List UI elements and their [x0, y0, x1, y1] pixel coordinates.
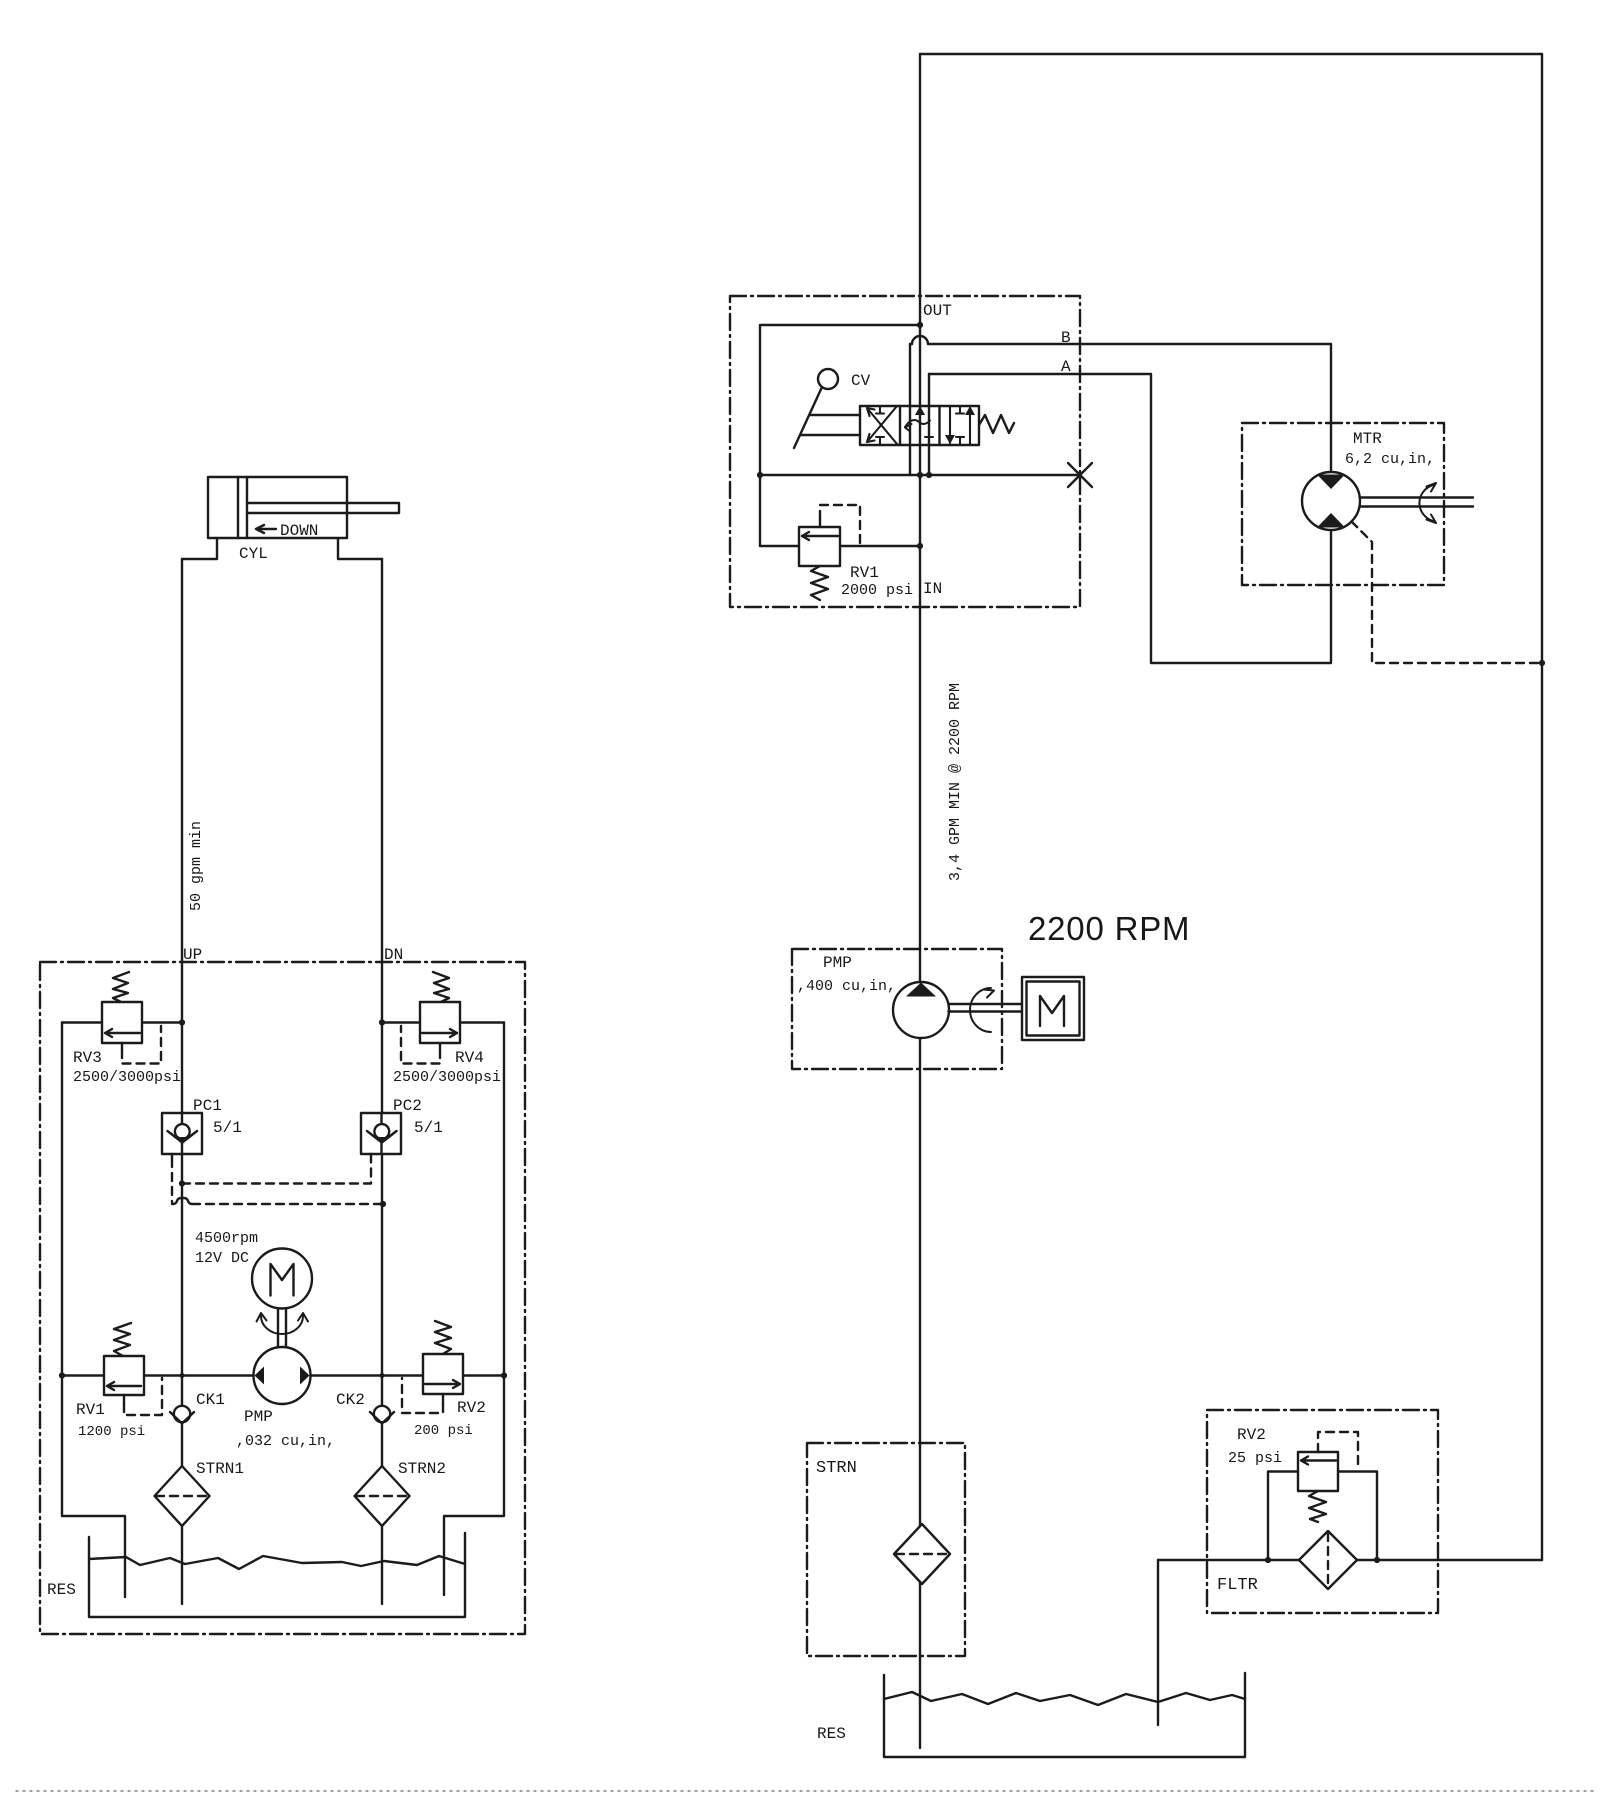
- svg-text:CK1: CK1: [196, 1391, 225, 1409]
- svg-text:5/1: 5/1: [414, 1119, 443, 1137]
- svg-text:50 gpm min: 50 gpm min: [188, 821, 205, 911]
- svg-text:STRN: STRN: [816, 1459, 857, 1478]
- svg-text:3,4 GPM MIN @ 2200 RPM: 3,4 GPM MIN @ 2200 RPM: [947, 683, 964, 881]
- wire RV3 port lines: [62, 1021, 182, 1023]
- enclosure dash-dot box (left power unit): [40, 962, 525, 1634]
- check valve PC2: [361, 1113, 401, 1158]
- enclosure dash-dot pump PMP box: [792, 949, 1002, 1069]
- wire cylinder right foot: [338, 538, 382, 559]
- wire cylinder left foot: [182, 538, 217, 559]
- svg-text:5/1: 5/1: [213, 1119, 242, 1137]
- svg-text:FLTR: FLTR: [1217, 1576, 1258, 1595]
- svg-text:CYL: CYL: [239, 545, 268, 563]
- svg-text:STRN2: STRN2: [398, 1460, 446, 1478]
- relief valve RV2 (200 psi): [402, 1321, 463, 1413]
- node filter inlet junction: [1265, 1557, 1271, 1563]
- svg-text:RV2: RV2: [1237, 1426, 1266, 1444]
- node left leg / mid line junction: [757, 472, 763, 478]
- page bottom dotted border: [16, 1790, 1597, 1792]
- svg-text:OUT: OUT: [923, 302, 952, 320]
- svg-text:2200 RPM: 2200 RPM: [1028, 910, 1190, 947]
- svg-text:PMP: PMP: [244, 1408, 273, 1426]
- check valve CK2: [370, 1406, 394, 1424]
- svg-text:PC1: PC1: [193, 1097, 222, 1115]
- node manifold / right riser junction: [501, 1372, 507, 1378]
- enclosure dash-dot valve assembly box: [730, 296, 1080, 607]
- node case drain / feed line junction: [1539, 660, 1545, 666]
- filter FLTR: [1299, 1531, 1357, 1589]
- directional control valve CV body: [860, 406, 979, 445]
- svg-text:A: A: [1061, 358, 1071, 376]
- wire filter line: [1158, 1559, 1542, 1561]
- svg-text:25 psi: 25 psi: [1228, 1450, 1282, 1467]
- svg-text:12V DC: 12V DC: [195, 1250, 249, 1267]
- svg-text:PC2: PC2: [393, 1097, 422, 1115]
- arrow DOWN direction: [256, 525, 276, 533]
- node RV1 outlet / left riser junction: [59, 1372, 65, 1378]
- valve centre envelope symbols: [905, 406, 933, 437]
- svg-text:1200 psi: 1200 psi: [78, 1424, 145, 1440]
- svg-text:DOWN: DOWN: [280, 522, 318, 540]
- svg-text:CK2: CK2: [336, 1391, 365, 1409]
- cylinder CYL body: [208, 477, 347, 538]
- relief valve RV3: [102, 972, 161, 1064]
- strainer STRN2: [355, 1466, 410, 1526]
- wire DN line: [381, 559, 383, 1604]
- strainer STRN: [894, 1524, 950, 1584]
- svg-text:RV1: RV1: [850, 564, 879, 582]
- hydraulic motor MTR: [1302, 472, 1360, 530]
- electric motor M (4500rpm): [252, 1249, 312, 1309]
- svg-text:2500/3000psi: 2500/3000psi: [393, 1069, 501, 1086]
- wire mid horizontal (to plugged port): [760, 474, 1080, 476]
- svg-text:DN: DN: [384, 946, 403, 964]
- pump shaft to motor: [949, 1004, 1023, 1012]
- strainer STRN1: [155, 1466, 210, 1526]
- svg-text:MTR: MTR: [1353, 430, 1382, 448]
- svg-text:RV2: RV2: [457, 1399, 486, 1417]
- valve return spring: [979, 415, 1014, 433]
- valve right envelope symbols: [945, 406, 975, 445]
- node manifold / UP line junction: [180, 1373, 185, 1378]
- wire pump manifold line: [62, 1374, 504, 1376]
- check valve CK1: [170, 1406, 194, 1424]
- pump rotation arrow: [970, 988, 994, 1032]
- motor rotation arrow: [1419, 483, 1436, 523]
- fluid surface (right): [884, 1692, 1245, 1705]
- svg-text:,032 cu,in,: ,032 cu,in,: [236, 1433, 335, 1450]
- pilot line PC2 sense (upper dashed): [182, 1158, 371, 1184]
- relief valve RV1 (1200 psi): [104, 1323, 162, 1415]
- reservoir RES tank (right): [884, 1673, 1245, 1757]
- svg-text:UP: UP: [183, 946, 202, 964]
- check valve PC1: [162, 1113, 202, 1159]
- node main line / RV1 line junction: [917, 543, 923, 549]
- fluid surface (left): [89, 1556, 465, 1569]
- reservoir RES tank (left): [89, 1533, 465, 1617]
- cylinder piston: [237, 477, 239, 538]
- relief valve RV1 (2000 psi): [799, 505, 860, 600]
- svg-text:STRN1: STRN1: [196, 1460, 244, 1478]
- node manifold / DN line junction: [380, 1373, 385, 1378]
- svg-text:RES: RES: [817, 1725, 846, 1743]
- hydraulic pump PMP (left, .032 cu in): [254, 1347, 311, 1404]
- plugged port X: [1068, 463, 1092, 487]
- node RV4 inlet / DN line junction: [379, 1019, 385, 1025]
- wire main OUT-IN line: [919, 54, 921, 1748]
- svg-text:B: B: [1061, 329, 1071, 347]
- motor shaft: [1360, 498, 1474, 507]
- svg-text:CV: CV: [851, 372, 871, 390]
- motor case drain (dashed): [1352, 522, 1543, 664]
- wire inner circuit left leg and top: [760, 325, 920, 546]
- svg-text:RV3: RV3: [73, 1049, 102, 1067]
- svg-text:IN: IN: [923, 580, 942, 598]
- wire top loop and right feed line: [920, 54, 1542, 1560]
- svg-text:,400 cu,in,: ,400 cu,in,: [797, 978, 896, 995]
- relief valve RV4: [401, 972, 460, 1064]
- node RV3 outlet / UP line junction: [179, 1019, 185, 1025]
- motor-pump shaft: [278, 1309, 286, 1348]
- node main line / mid line junction: [917, 472, 923, 478]
- relief valve RV2 (25 psi): [1268, 1432, 1377, 1560]
- wire B line with hop: [910, 343, 912, 345]
- electric motor M box: [1022, 977, 1084, 1040]
- pilot line PC1 sense (lower dashed with hop): [172, 1159, 383, 1204]
- wire RV4 port lines: [382, 1021, 504, 1023]
- svg-text:2000 psi: 2000 psi: [841, 582, 913, 599]
- valve left envelope crossed arrows: [867, 406, 897, 445]
- wire valve B riser: [909, 344, 911, 475]
- wire A line: [929, 374, 1331, 663]
- node PC2 pilot / UP line junction: [179, 1180, 185, 1186]
- cylinder rod: [247, 503, 399, 513]
- node A riser / mid line junction: [926, 472, 932, 478]
- wire left riser (RV1/RV3 tank leg): [62, 1023, 125, 1598]
- node OUT branch junction: [917, 322, 923, 328]
- wire RV1 line (IN bypass): [760, 545, 920, 547]
- svg-text:2500/3000psi: 2500/3000psi: [73, 1069, 181, 1086]
- wire UP line: [181, 559, 183, 1604]
- svg-text:6,2 cu,in,: 6,2 cu,in,: [1345, 451, 1435, 468]
- enclosure dash-dot motor MTR box: [1242, 423, 1444, 585]
- enclosure dash-dot strainer STRN box: [807, 1443, 965, 1656]
- node PC1 pilot / DN line junction: [380, 1201, 386, 1207]
- wire valve A riser: [928, 374, 930, 475]
- lever actuator CV: [794, 369, 860, 448]
- rotation arrow (bidirectional): [257, 1313, 309, 1334]
- svg-text:RV4: RV4: [455, 1049, 484, 1067]
- svg-text:RV1: RV1: [76, 1401, 105, 1419]
- wire right riser (RV2/RV4 tank leg): [444, 1023, 504, 1596]
- svg-text:PMP: PMP: [823, 954, 852, 972]
- node filter outlet junction: [1374, 1557, 1380, 1563]
- wire filter return riser: [1157, 1560, 1159, 1725]
- svg-text:200 psi: 200 psi: [414, 1423, 473, 1439]
- enclosure dash-dot filter FLTR box: [1207, 1410, 1438, 1613]
- svg-text:4500rpm: 4500rpm: [195, 1230, 258, 1247]
- hydraulic pump PMP (right, .400 cu in): [893, 982, 949, 1038]
- svg-text:RES: RES: [47, 1581, 76, 1599]
